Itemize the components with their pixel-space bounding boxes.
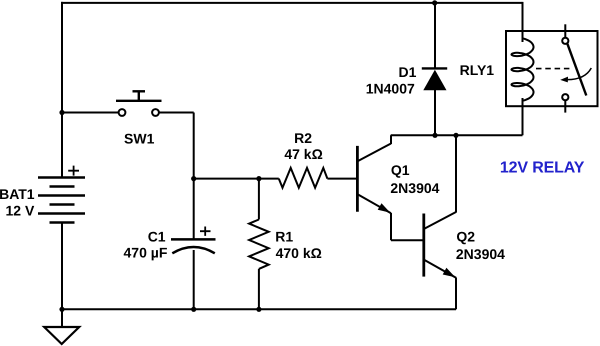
node Q2 collector [453,133,458,138]
capacitor C1 [171,179,216,310]
ground [44,309,79,344]
resistor R1 [249,179,269,310]
node C1 bottom [191,307,196,312]
wire left vertical [61,2,63,178]
svg-text:R1: R1 [275,228,293,244]
wire bottom rail [62,308,456,310]
relay contact bottom circle [562,94,568,100]
node diode bottom [432,133,437,138]
wire rail to relay coil [522,2,524,42]
relay contact top circle [562,38,568,44]
svg-text:12V RELAY: 12V RELAY [500,160,585,177]
svg-text:2N3904: 2N3904 [456,246,505,262]
relay switch arm [567,44,586,96]
wire battery to bottom rail [61,223,63,310]
wire SW1 to C1 node [159,113,194,179]
relay RLY1 box [506,31,598,106]
wire node to R1 junction [194,178,279,180]
svg-text:R2: R2 [294,130,312,146]
svg-text:470 µF: 470 µF [124,244,168,260]
svg-text:RLY1: RLY1 [460,62,495,78]
svg-text:Q2: Q2 [456,229,475,245]
svg-text:1N4007: 1N4007 [366,81,415,97]
node C1 top junction [191,176,196,181]
wire R2 to Q1 base [327,178,356,180]
relay contact top stub [564,24,566,37]
svg-text:470 kΩ: 470 kΩ [276,245,322,261]
switch SW1 [116,91,162,116]
svg-text:Q1: Q1 [391,162,410,178]
svg-text:D1: D1 [398,64,416,80]
battery BAT1 [38,166,85,223]
svg-text:C1: C1 [148,229,166,245]
svg-text:47 kΩ: 47 kΩ [284,146,322,162]
svg-text:2N3904: 2N3904 [390,180,439,196]
wire to SW1 [62,112,119,114]
relay dashed actuation line [536,68,570,70]
svg-text:SW1: SW1 [124,130,155,146]
diode D1 [422,3,447,135]
node R1/R2 junction [256,176,261,181]
svg-text:BAT1: BAT1 [0,186,35,202]
resistor R2 [279,168,328,188]
relay actuation arrow [560,68,591,82]
node battery/switch junction [59,110,64,115]
wire top rail [61,2,523,4]
transistor Q1 [357,135,423,240]
svg-text:12 V: 12 V [5,203,34,219]
transistor Q2 [424,135,456,309]
relay contact bottom stub [564,100,566,112]
node battery bottom [59,307,64,312]
relay coil [522,30,524,38]
wire collector rail [391,98,523,135]
node R1 bottom [256,307,261,312]
node diode top on rail [432,0,437,5]
